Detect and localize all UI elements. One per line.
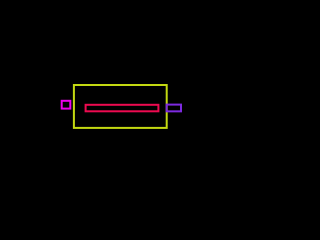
pin 1 pad (left) (62, 101, 71, 109)
pad row / resistor element R1 (86, 105, 159, 112)
component body outline U1 (74, 85, 167, 128)
pin 2 pad (right) (167, 105, 181, 112)
